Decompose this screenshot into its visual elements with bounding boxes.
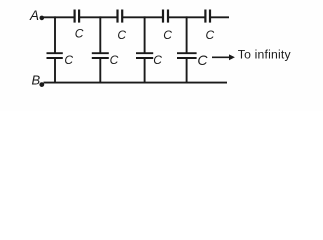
svg-text:C: C: [197, 52, 208, 68]
capacitor C4: [205, 10, 210, 23]
svg-text:C: C: [206, 28, 215, 42]
wire: [54, 58, 56, 84]
svg-text:C: C: [153, 53, 162, 67]
wire: [43, 16, 75, 18]
wire: [186, 16, 188, 53]
capacitor C2: [118, 10, 123, 23]
wire: [54, 16, 56, 53]
capacitor C6: [92, 53, 109, 58]
wire: [186, 58, 188, 84]
capacitor C8: [177, 53, 197, 58]
svg-text:A: A: [29, 8, 39, 23]
wire: [80, 16, 117, 18]
svg-text:C: C: [64, 53, 73, 67]
wire: [144, 58, 146, 84]
svg-text:C: C: [75, 26, 84, 40]
wire: [99, 16, 101, 53]
wire: [99, 58, 101, 84]
svg-text:B: B: [32, 72, 41, 87]
svg-text:C: C: [163, 28, 172, 42]
wire: [211, 16, 229, 18]
wire: [44, 82, 228, 84]
capacitor C7: [136, 53, 153, 58]
svg-text:C: C: [117, 28, 126, 42]
arrow to infinity: [212, 54, 235, 60]
node A: [29, 8, 44, 23]
svg-text:To infinity: To infinity: [238, 48, 292, 62]
capacitor C5: [47, 53, 63, 58]
svg-text:C: C: [110, 53, 119, 67]
node B: [32, 72, 45, 87]
wire: [144, 16, 146, 53]
capacitor C1: [75, 10, 80, 23]
capacitor C3: [163, 10, 168, 23]
wire: [123, 16, 163, 18]
wire: [169, 16, 205, 18]
